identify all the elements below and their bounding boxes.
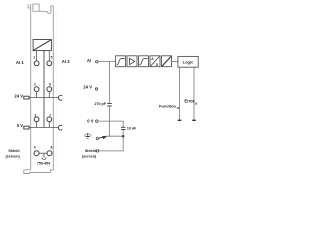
terminal 1	[34, 61, 39, 66]
svg-text:(screen): (screen)	[5, 154, 20, 158]
svg-text:24 V: 24 V	[83, 85, 92, 90]
shield link wire	[39, 152, 47, 154]
svg-text:Logic: Logic	[183, 59, 194, 64]
capacitor C2 10nF plates	[121, 127, 125, 129]
wire error LED	[193, 67, 195, 120]
svg-text:7: 7	[49, 113, 51, 117]
junction earth	[122, 135, 124, 137]
earth symbol	[84, 133, 91, 138]
terminal 8	[47, 151, 52, 156]
wire 270pF branch	[109, 62, 111, 137]
transducer diagonal	[33, 40, 51, 51]
svg-text:5: 5	[51, 55, 53, 59]
rail contact arrow	[96, 136, 107, 140]
function LED endbar	[178, 119, 182, 121]
24V plug contact	[24, 96, 29, 99]
svg-text:AI 2: AI 2	[62, 59, 70, 64]
filter F2	[139, 56, 149, 67]
svg-text:Shield: Shield	[8, 149, 20, 153]
svg-text:3: 3	[35, 113, 37, 117]
0V socket contact	[58, 125, 62, 130]
svg-text:270 pF: 270 pF	[95, 102, 107, 106]
svg-text:Shield: Shield	[85, 149, 97, 153]
svg-text:4: 4	[34, 146, 36, 150]
module outline 750-454	[24, 4, 54, 173]
error LED endbar	[192, 119, 196, 121]
stub below terminal 2	[36, 92, 38, 98]
stub below terminal 3	[36, 122, 38, 128]
stub below terminal 6	[48, 92, 50, 98]
24V socket contact	[58, 95, 62, 100]
svg-text:6: 6	[49, 82, 51, 86]
terminal 4	[34, 151, 39, 156]
node shield right	[96, 150, 98, 152]
svg-text:A: A	[151, 57, 154, 61]
node AI right	[96, 61, 98, 63]
stub below terminal 7	[48, 122, 50, 128]
transducer U1	[33, 40, 51, 51]
svg-text:(screen): (screen)	[82, 154, 97, 158]
24V bus wire	[29, 97, 59, 99]
svg-text:10 nF: 10 nF	[127, 126, 137, 130]
shield hook	[42, 153, 46, 159]
wire stub pin1	[36, 51, 38, 61]
wire isolation to logic	[172, 61, 178, 63]
0V plug contact	[24, 126, 29, 129]
terminal 6	[47, 87, 52, 92]
svg-text:AI 1: AI 1	[16, 60, 24, 65]
svg-text:12: 12	[195, 101, 198, 105]
svg-text:0 V: 0 V	[17, 123, 23, 128]
wire shield center	[43, 50, 45, 127]
terminal 7	[47, 117, 52, 122]
svg-text:24 V: 24 V	[14, 94, 23, 99]
terminal 5	[47, 61, 52, 66]
svg-text:0 V: 0 V	[87, 118, 93, 123]
wire function LED	[179, 67, 181, 120]
wire earth	[99, 136, 123, 151]
svg-text:Error: Error	[184, 99, 194, 104]
node 0V right	[96, 120, 98, 122]
isolation barrier	[162, 56, 172, 67]
node 24V right	[95, 88, 97, 90]
0V bus wire	[29, 127, 59, 129]
terminal 2	[34, 87, 39, 92]
wire 0V	[98, 121, 123, 136]
adjacent module dashed edge	[55, 12, 57, 166]
converter A/D	[150, 56, 160, 67]
filter F1	[116, 56, 126, 67]
svg-text:Function: Function	[159, 103, 176, 108]
amplifier A1	[127, 56, 137, 67]
svg-text:AI: AI	[87, 58, 91, 63]
svg-text:1: 1	[33, 55, 35, 59]
capacitor C1 270pF plates	[107, 103, 112, 106]
wire AI to filter	[98, 61, 115, 63]
svg-text:8: 8	[51, 146, 53, 150]
logic block	[178, 56, 198, 67]
terminal 3	[34, 117, 39, 122]
wire stub pin5	[48, 51, 50, 61]
svg-text:750-454: 750-454	[37, 162, 50, 166]
svg-text:2: 2	[34, 82, 36, 86]
